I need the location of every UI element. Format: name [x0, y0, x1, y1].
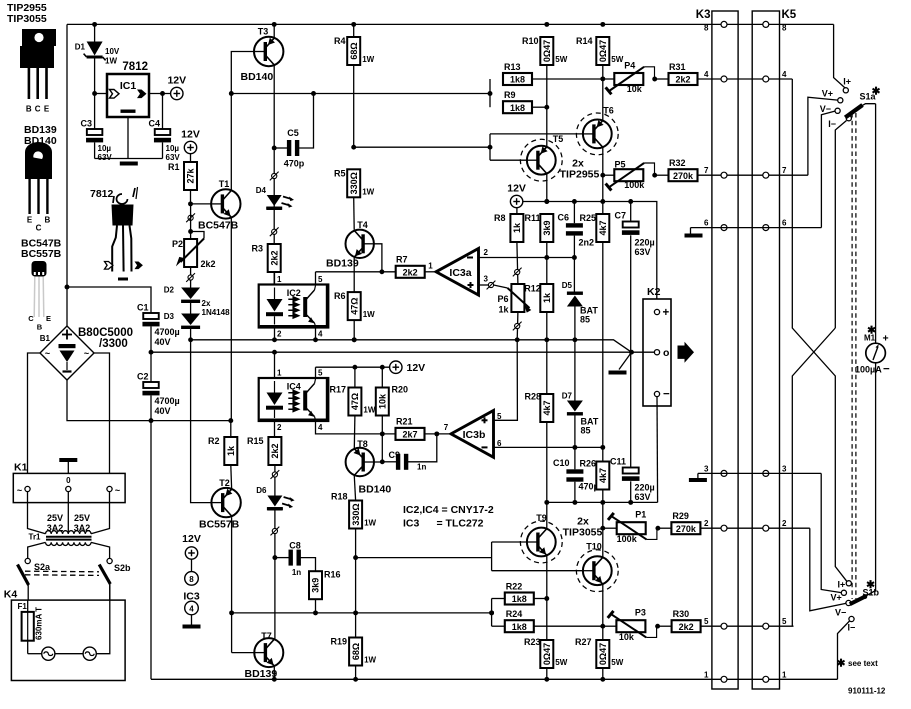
svg-text:6: 6: [704, 219, 709, 228]
IC4 pin 2: [275, 421, 283, 437]
svg-text:P6: P6: [497, 294, 508, 304]
resistor R27 0R47 5W: [575, 637, 624, 682]
svg-text:2k2: 2k2: [201, 259, 216, 269]
svg-text:+: +: [663, 307, 670, 319]
switch S2a: [18, 558, 52, 600]
TO-220 package drawing: [20, 29, 56, 114]
svg-text:1W: 1W: [363, 310, 375, 319]
svg-text:V+: V+: [822, 89, 833, 99]
svg-text:IC3b: IC3b: [463, 429, 486, 441]
resistor R23 0R47 5W: [524, 637, 568, 682]
IC3 pin 8 bubble: [185, 559, 199, 585]
svg-text:R8: R8: [494, 213, 506, 223]
terminal S1a V+: [822, 89, 843, 103]
svg-text:10k: 10k: [627, 84, 643, 94]
wire T2 collector to driver node: [229, 517, 234, 652]
capacitor C7 220u 63V: [614, 202, 654, 353]
svg-text:5: 5: [318, 368, 323, 377]
wire T5/T6 base feed bar: [489, 134, 491, 160]
IC2 pin 5: [316, 272, 324, 285]
svg-text:TIP2955: TIP2955: [560, 169, 600, 181]
resistor R15 2k2: [247, 436, 281, 496]
resistor R11 3k9: [524, 213, 553, 284]
svg-text:P1: P1: [635, 510, 646, 520]
svg-text:1k: 1k: [542, 292, 552, 303]
svg-text:C: C: [35, 105, 41, 114]
terminal S1b I+: [838, 580, 852, 590]
svg-text:✱: ✱: [867, 325, 876, 337]
svg-text:0Ω47: 0Ω47: [542, 40, 552, 62]
svg-text:4: 4: [318, 330, 323, 339]
svg-text:C3: C3: [80, 119, 92, 129]
wire T6 base: [490, 133, 583, 135]
svg-text:R16: R16: [324, 570, 341, 580]
resistor R8 1k: [494, 208, 523, 284]
terminal S1a I+: [843, 77, 851, 93]
terminal S1b V-: [835, 600, 851, 617]
label 2x TIP2955: [560, 158, 600, 181]
svg-text:63V: 63V: [166, 153, 181, 162]
svg-text:B1: B1: [40, 334, 51, 343]
svg-text:R25: R25: [579, 213, 596, 223]
svg-text:R15: R15: [247, 436, 264, 446]
K3/K5 row 4 pins: [704, 70, 787, 82]
svg-text:1k8: 1k8: [510, 75, 525, 85]
resistor R10 0R47 5W: [522, 36, 568, 146]
svg-text:T2: T2: [219, 478, 230, 488]
wire between lamps: [55, 653, 83, 655]
wire T6 collector: [600, 148, 605, 214]
svg-text:40V: 40V: [155, 337, 171, 347]
wire row7 to S1a V+: [808, 97, 838, 175]
svg-text:1k: 1k: [498, 305, 509, 315]
svg-text:1W: 1W: [363, 406, 375, 415]
measure point below D4: [270, 227, 279, 236]
svg-text:V−: V−: [820, 104, 831, 114]
K3/K5 row 6 pins: [704, 219, 787, 231]
svg-text:5: 5: [782, 617, 787, 626]
svg-text:10µ: 10µ: [166, 144, 180, 153]
svg-text:R12: R12: [524, 284, 541, 294]
resistor R3 2k2: [251, 244, 280, 285]
resistor R32 270k: [655, 158, 808, 181]
svg-text:2k2: 2k2: [269, 250, 279, 265]
wire row2 to S1b V-: [810, 528, 846, 611]
svg-text:3: 3: [704, 464, 709, 473]
wire K2 minus down: [656, 397, 659, 503]
connector K4 mains inlet: [4, 589, 125, 681]
resistor R22 1k8: [505, 582, 547, 605]
svg-text:T5: T5: [553, 134, 564, 144]
IC2 pin 4: [313, 328, 323, 343]
svg-text:K2: K2: [647, 286, 661, 298]
svg-text:2: 2: [277, 423, 282, 432]
transistor T10 TIP3055: [576, 542, 618, 592]
svg-text:10k: 10k: [619, 632, 635, 642]
wire lower 0V link to K2 minus: [544, 500, 657, 505]
svg-text:4: 4: [189, 605, 194, 614]
svg-text:4: 4: [782, 70, 787, 79]
svg-text:see text: see text: [848, 659, 878, 668]
svg-text:1W: 1W: [362, 187, 374, 196]
resistor R16 3k9: [309, 570, 341, 613]
svg-text:V−: V−: [835, 608, 846, 618]
svg-text:7: 7: [704, 166, 709, 175]
capacitor C2 4700u 40V: [137, 352, 180, 420]
gang link S1a-S1b dashed: [852, 113, 856, 599]
wire B1 minus to bottom: [67, 380, 233, 423]
resistor R13 1k8: [503, 62, 603, 85]
wire T7 base: [232, 652, 255, 654]
resistor R25 4k7: [579, 213, 609, 447]
terminal S1a V-: [820, 104, 840, 114]
svg-text:R23: R23: [524, 637, 541, 647]
svg-text:7: 7: [444, 423, 449, 432]
K3/K5 row 1 pins: [704, 670, 787, 682]
svg-text:C8: C8: [289, 541, 301, 551]
capacitor C1 4700u 40V: [137, 303, 180, 353]
svg-text:3A2: 3A2: [74, 523, 91, 533]
svg-text:40V: 40V: [155, 406, 171, 416]
wire IC3b pin5 to P6 bottom: [494, 340, 518, 421]
svg-text:BC557B: BC557B: [199, 519, 240, 531]
svg-text:P3: P3: [635, 608, 646, 618]
svg-text:1: 1: [782, 670, 787, 679]
svg-text:R24: R24: [506, 609, 523, 619]
wire Tr1 primary to switches: [28, 542, 110, 558]
svg-text:I−: I−: [848, 623, 856, 633]
wire T10 emitter stub: [600, 502, 605, 556]
svg-text:10k: 10k: [378, 393, 388, 409]
terminal S1b I-: [848, 616, 856, 632]
K3/K5 row 3 pins: [704, 464, 787, 476]
TO-92 package drawing: [28, 261, 51, 332]
svg-text:B: B: [45, 216, 51, 225]
svg-text:1W: 1W: [364, 519, 376, 528]
switch S2b: [99, 558, 131, 600]
svg-text:2x: 2x: [202, 299, 211, 308]
svg-text:V+: V+: [831, 593, 842, 603]
svg-text:25V: 25V: [74, 513, 90, 523]
capacitor C8 1n: [275, 541, 316, 578]
K3/K5 row 2 pins: [704, 519, 787, 531]
wire T9 collector to R23: [544, 556, 549, 640]
svg-text:T10: T10: [586, 542, 602, 552]
wire bottom rail to S1b I-: [838, 621, 850, 679]
svg-text:R20: R20: [392, 385, 409, 395]
wire IC1 ground link: [95, 117, 163, 159]
svg-text:R22: R22: [506, 582, 523, 592]
svg-text:63V: 63V: [635, 492, 651, 502]
supply +12V at IC1 output: [167, 75, 186, 100]
svg-text:8: 8: [704, 24, 709, 33]
transistor T5 TIP2955: [520, 134, 563, 181]
resistor R28 4k7: [524, 340, 553, 503]
wire T1 emitter down: [230, 218, 232, 420]
wire T7 collector to rail: [272, 667, 277, 682]
svg-text:D4: D4: [256, 186, 267, 195]
svg-text:BC547B: BC547B: [198, 220, 239, 232]
svg-text:5W: 5W: [611, 55, 623, 64]
svg-text:E: E: [46, 314, 51, 323]
meter M1 100uA: [855, 325, 890, 376]
svg-text:4700µ: 4700µ: [155, 396, 180, 406]
wire T4 base to R7 node: [374, 244, 384, 274]
svg-text:2n2: 2n2: [579, 238, 595, 248]
resistor R7 2k2: [396, 254, 436, 278]
wire B1 left ac to K1: [28, 353, 41, 473]
wire C1 feed: [67, 287, 151, 313]
wire bottom rail: [151, 678, 838, 680]
svg-text:2k2: 2k2: [675, 75, 690, 85]
svg-text:12V: 12V: [181, 129, 200, 141]
IC2 pin 1: [275, 272, 283, 285]
K3/K5 row 7 pins: [704, 166, 787, 178]
svg-text:7812: 7812: [90, 188, 114, 200]
svg-text:R31: R31: [669, 62, 686, 72]
svg-text:B: B: [37, 323, 43, 332]
wire K2 common to 0V node: [632, 351, 655, 353]
supply +12V aux: [390, 361, 426, 374]
ground row 6: [685, 228, 703, 238]
svg-text:T9: T9: [536, 513, 547, 523]
potentiometer P4 10k: [603, 61, 657, 95]
svg-text:2k2: 2k2: [403, 267, 418, 277]
wire R1-P2 link: [188, 206, 193, 239]
transistor T6 TIP2955: [576, 106, 618, 155]
K3/K5 row 5 pins: [704, 617, 787, 629]
wire 12V sense rail: [231, 91, 492, 96]
resistor R12 1k: [524, 284, 553, 340]
svg-text:P2: P2: [172, 239, 183, 249]
svg-text:1W: 1W: [105, 57, 117, 66]
ground K1 centre tap: [59, 458, 77, 473]
svg-text:1k8: 1k8: [510, 103, 525, 113]
transistor T8 BD140: [346, 439, 392, 496]
svg-text:R32: R32: [669, 158, 686, 168]
mains lamp terminal left: [28, 647, 55, 660]
svg-text:o: o: [663, 347, 669, 359]
resistor R4 68R 1W: [334, 24, 375, 147]
svg-text:1: 1: [277, 275, 282, 284]
svg-text:K5: K5: [782, 9, 797, 21]
svg-text:100k: 100k: [624, 180, 645, 190]
svg-text:3: 3: [484, 275, 489, 284]
measure point below D6: [271, 510, 280, 557]
svg-text:D2: D2: [164, 286, 175, 295]
svg-text:R17: R17: [329, 385, 346, 395]
svg-text:✱: ✱: [837, 658, 846, 670]
svg-text:10V: 10V: [105, 47, 120, 56]
svg-text:1W: 1W: [364, 656, 376, 665]
resistor R24 1k8: [505, 609, 603, 632]
svg-text:47Ω: 47Ω: [350, 393, 360, 410]
svg-text:100µA: 100µA: [855, 365, 882, 375]
measure point below P2: [186, 267, 195, 288]
svg-text:IC3: IC3: [403, 518, 420, 530]
ground IC3: [183, 625, 201, 629]
svg-text:R19: R19: [330, 637, 347, 647]
IC2 pin 2: [272, 328, 282, 343]
label 910111-12: [848, 687, 886, 696]
resistor R14 0R47 5W: [576, 36, 624, 120]
ground IC1: [120, 162, 138, 166]
wire T3 base link: [231, 52, 254, 93]
wire feedback bus upper: [191, 337, 632, 352]
svg-text:R1: R1: [168, 162, 180, 172]
svg-text:E: E: [44, 105, 50, 114]
wire IC1 input node: [92, 91, 107, 96]
svg-text:5W: 5W: [555, 55, 567, 64]
wire IC1 output to 12V tap: [149, 91, 171, 96]
wire row3 to S1b V+: [821, 473, 841, 592]
svg-text:10µ: 10µ: [98, 144, 112, 153]
resistor R6 47R 1W: [334, 291, 375, 342]
resistor R31 2k2: [655, 62, 793, 85]
svg-text:R13: R13: [504, 62, 521, 72]
svg-text:R27: R27: [575, 637, 592, 647]
diode D3 1N4148: [164, 303, 200, 340]
node T1 base / R1: [188, 201, 211, 206]
resistor R26 4k7: [579, 447, 609, 502]
svg-text:~: ~: [115, 486, 120, 496]
transistor T9 TIP3055: [520, 513, 562, 563]
wire meter to S1b pivot: [865, 363, 876, 597]
svg-text:4: 4: [704, 70, 709, 79]
wire 12V aux rail: [316, 365, 390, 370]
output arrow: [678, 342, 695, 363]
label 2x 1N4148: [202, 299, 231, 317]
svg-text:S2b: S2b: [114, 563, 131, 573]
svg-text:100k: 100k: [617, 534, 638, 544]
svg-text:R6: R6: [334, 291, 346, 301]
measure point above D6: [271, 470, 280, 479]
svg-text:+: +: [883, 333, 889, 345]
svg-text:47Ω: 47Ω: [349, 297, 359, 314]
svg-text:I−: I−: [828, 119, 836, 129]
svg-text:C6: C6: [557, 213, 569, 223]
svg-text:Tr1: Tr1: [29, 533, 42, 542]
svg-text:5: 5: [318, 275, 323, 284]
capacitor C5 470p: [274, 94, 313, 169]
svg-text:68Ω: 68Ω: [349, 42, 359, 59]
svg-text:12V: 12V: [407, 362, 426, 374]
svg-text:1k: 1k: [512, 222, 522, 233]
switch S1b arm: [850, 579, 880, 604]
svg-text:12V: 12V: [182, 533, 201, 545]
svg-text:D7: D7: [562, 392, 573, 401]
wire R13/R9 left bar: [489, 79, 491, 107]
resistor R30 2k2: [658, 609, 794, 632]
svg-text:2k2: 2k2: [679, 622, 694, 632]
svg-text:R4: R4: [334, 36, 346, 46]
capacitor C9 1n: [382, 434, 437, 472]
svg-text:2: 2: [782, 519, 787, 528]
supply +12V for IC3: [182, 533, 201, 559]
resistor R21 2k7: [396, 416, 452, 440]
svg-text:C10: C10: [553, 458, 570, 468]
svg-text:12V: 12V: [507, 183, 526, 195]
svg-text:D3: D3: [164, 312, 175, 321]
measure point below R8: [513, 268, 522, 277]
resistor R20 10k: [376, 367, 408, 462]
wire S1a I- to crossover lane: [835, 121, 846, 329]
svg-text:D1: D1: [75, 43, 86, 52]
diode D1 zener: [75, 24, 120, 93]
wire T10 collector to R27: [600, 585, 605, 640]
svg-text:T1: T1: [219, 179, 230, 189]
svg-text:1n: 1n: [292, 568, 301, 577]
svg-text:4700µ: 4700µ: [155, 327, 180, 337]
resistor R18 330R 1W: [331, 476, 377, 613]
label BC547B/BC557B: [21, 238, 62, 261]
svg-text:1W: 1W: [362, 55, 374, 64]
capacitor C10 470p: [553, 447, 600, 502]
svg-text:C11: C11: [610, 457, 626, 467]
svg-text:0Ω47: 0Ω47: [542, 643, 552, 665]
svg-text:27k: 27k: [186, 168, 196, 184]
wire R22/R24 left bar: [489, 599, 505, 627]
transistor T7 BD139: [245, 631, 284, 680]
resistor R29 270k: [658, 511, 810, 534]
wire crossover X: [792, 79, 846, 626]
wire T4 emitter to R6: [353, 258, 355, 292]
TO-126 package drawing: [25, 142, 52, 233]
svg-text:IC1: IC1: [120, 80, 137, 92]
svg-text:2k2: 2k2: [270, 443, 280, 458]
svg-text:270k: 270k: [676, 524, 697, 534]
wire IC3a pin2 net: [479, 255, 577, 260]
svg-text:4: 4: [318, 423, 323, 432]
optocoupler IC2 CNY17-2: [259, 285, 329, 328]
svg-text:P5: P5: [614, 160, 625, 170]
svg-text:3k9: 3k9: [311, 578, 321, 593]
transformer Tr1: [29, 513, 92, 546]
resistor R5 330R 1W: [334, 169, 375, 230]
svg-text:S2a: S2a: [34, 562, 51, 572]
svg-text:T3: T3: [258, 27, 269, 37]
wire T9 emitter stub: [546, 502, 548, 528]
resistor R17 47R 1W: [329, 367, 375, 448]
svg-text:7: 7: [782, 166, 787, 175]
ground row 3: [689, 473, 707, 482]
wire C2 junction down to bottom rail: [150, 421, 152, 680]
svg-text:8: 8: [189, 575, 194, 584]
svg-text:3k9: 3k9: [542, 220, 552, 235]
capacitor C4: [148, 94, 180, 163]
terminal S1a I-: [828, 116, 851, 129]
diode D7 BAT85: [562, 340, 599, 448]
transistor T1 BC547B: [198, 179, 241, 232]
svg-text:910111-12: 910111-12: [848, 687, 886, 696]
svg-text:5W: 5W: [611, 658, 623, 667]
svg-text:85: 85: [580, 315, 590, 325]
wire 0V bus lower: [151, 350, 634, 355]
svg-text:6: 6: [782, 219, 787, 228]
svg-text:~: ~: [17, 486, 22, 496]
svg-text:2: 2: [704, 519, 709, 528]
wire T5 base: [490, 159, 527, 161]
svg-text:−: −: [663, 389, 670, 401]
svg-text:D6: D6: [256, 486, 267, 495]
gang link S2a-S2b dashed: [25, 571, 99, 575]
svg-text:~: ~: [84, 349, 89, 359]
svg-text:T6: T6: [603, 106, 614, 116]
wire main mid rail to K2 plus: [523, 199, 657, 309]
svg-text:C: C: [28, 314, 34, 323]
svg-text:R11: R11: [524, 213, 540, 223]
svg-text:R29: R29: [672, 511, 689, 521]
